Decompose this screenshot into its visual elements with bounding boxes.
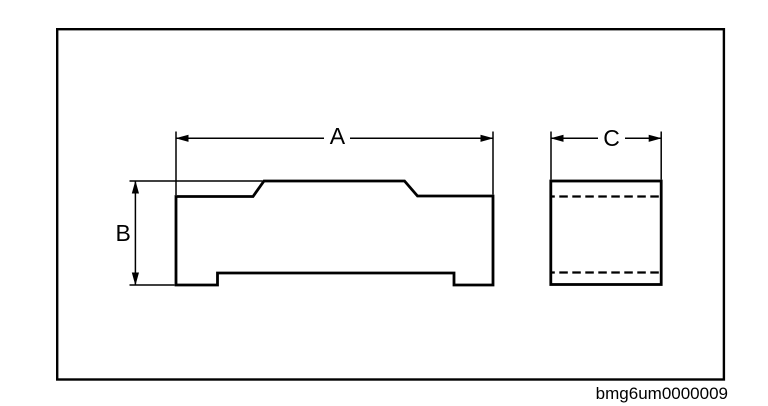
dimension A extension line left [175,132,177,196]
dimension B arrowhead top [132,181,139,194]
border frame [57,29,724,379]
dimension A extension line right [492,132,494,195]
dimension C arrowhead right [649,135,662,142]
dimension B arrowhead bottom [132,273,139,286]
svg-text:bmg6um0000009: bmg6um0000009 [596,384,728,403]
dimension A arrowhead left [176,135,189,142]
dimension B extension line bottom [130,284,175,286]
svg-text:B: B [116,220,131,246]
dimension B line [134,181,136,285]
hidden edge dashed line lower [551,271,660,273]
dimension C extension line right [660,132,662,180]
dimension C extension line left [550,132,552,180]
svg-text:A: A [330,123,346,149]
dimension A arrowhead right [481,135,494,142]
dimension B extension line top [130,180,263,182]
component body side view [176,181,493,285]
hidden edge dashed line upper [551,195,660,197]
dimension C arrowhead left [551,135,564,142]
dimension A line [176,137,324,139]
dimension C line [551,137,598,139]
svg-text:C: C [603,125,620,151]
component end view [551,181,661,285]
